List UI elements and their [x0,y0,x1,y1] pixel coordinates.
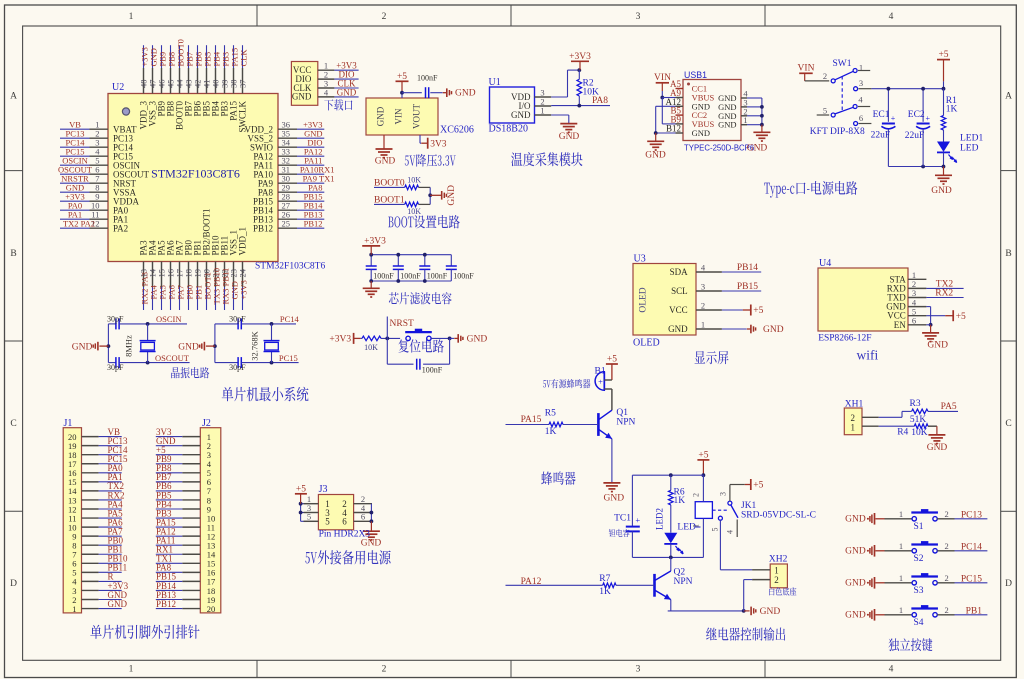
svg-text:STM32F103C8T6: STM32F103C8T6 [255,262,325,272]
svg-text:5: 5 [325,517,330,527]
svg-text:+3V3: +3V3 [569,52,591,62]
svg-text:22uF: 22uF [871,131,891,141]
svg-text:A: A [10,91,17,101]
svg-text:100nF: 100nF [427,272,448,281]
svg-text:LED2: LED2 [654,508,664,530]
svg-text:PA15: PA15 [521,415,542,425]
svg-text:4: 4 [725,530,734,534]
svg-text:GND: GND [604,494,625,504]
svg-text:S4: S4 [914,618,924,628]
svg-text:PC15: PC15 [961,574,982,584]
svg-text:2: 2 [823,71,827,81]
svg-text:GND: GND [931,186,952,196]
svg-text:1: 1 [743,115,747,125]
svg-text:VIN: VIN [393,108,403,124]
svg-text:SDA: SDA [670,267,689,277]
svg-text:2: 2 [701,301,705,311]
svg-text:PC15: PC15 [279,353,298,363]
svg-text:4: 4 [889,12,894,22]
svg-text:NPN: NPN [674,577,693,587]
svg-text:GND: GND [645,151,666,161]
svg-text:30pF: 30pF [229,314,246,323]
svg-text:GND: GND [337,87,357,97]
svg-text:LED1: LED1 [960,134,983,144]
svg-text:1: 1 [129,12,134,22]
svg-text:30pF: 30pF [107,363,124,372]
svg-text:+: + [635,515,640,525]
svg-text:22uF: 22uF [905,131,925,141]
svg-text:1: 1 [899,509,903,519]
svg-text:GND: GND [178,342,199,352]
svg-text:XC6206: XC6206 [440,125,474,136]
svg-text:PC14: PC14 [280,314,300,324]
svg-text:GND: GND [361,538,382,548]
svg-text:100nF: 100nF [400,272,421,281]
svg-text:+5: +5 [607,355,617,365]
svg-text:1: 1 [899,573,903,583]
svg-text:4: 4 [889,665,894,675]
svg-text:3: 3 [859,78,863,88]
svg-text:VCC: VCC [669,305,688,315]
svg-text:10K: 10K [364,343,378,352]
svg-text:GND: GND [108,599,128,609]
svg-text:OSCOUT: OSCOUT [155,353,190,363]
svg-text:D: D [10,579,17,589]
svg-text:CLK: CLK [239,49,249,67]
svg-text:EN: EN [894,320,906,330]
svg-text:10K: 10K [911,428,928,438]
svg-text:10K: 10K [407,175,421,184]
svg-text:1K: 1K [946,104,958,114]
svg-text:GND: GND [511,110,531,120]
svg-text:TC1: TC1 [614,514,631,524]
svg-text:PB14: PB14 [737,263,758,273]
svg-text:PA2: PA2 [113,223,128,233]
svg-text:GND: GND [455,89,476,99]
svg-text:C: C [1005,419,1011,429]
svg-text:30pF: 30pF [229,363,246,372]
svg-text:+: + [891,114,896,123]
svg-text:U3: U3 [634,254,646,265]
svg-text:2: 2 [774,575,779,585]
svg-text:VDD_1: VDD_1 [238,227,248,256]
svg-text:+3V3: +3V3 [364,236,386,246]
svg-text:SRD-05VDC-SL-C: SRD-05VDC-SL-C [741,511,816,521]
svg-text:37: 37 [238,80,248,89]
svg-text:NRST: NRST [390,319,414,329]
svg-text:S3: S3 [914,586,924,596]
svg-text:TYPEC-250D-BCP6: TYPEC-250D-BCP6 [684,143,754,152]
svg-text:+5: +5 [397,72,407,82]
svg-text:LED: LED [960,144,979,154]
svg-text:PB12: PB12 [156,599,176,609]
svg-text:1: 1 [899,605,903,615]
svg-text:GND: GND [747,144,768,154]
svg-text:1: 1 [72,604,76,614]
svg-text:OLED: OLED [639,287,649,312]
svg-text:24: 24 [238,268,248,277]
svg-text:3: 3 [701,282,705,292]
svg-text:6: 6 [912,316,916,326]
svg-text:1: 1 [540,105,544,115]
svg-text:VIN: VIN [798,64,815,74]
svg-text:C: C [10,419,16,429]
svg-text:PB12: PB12 [304,218,323,228]
svg-text:GND: GND [375,106,385,126]
svg-text:RX2: RX2 [935,288,953,298]
svg-text:+5: +5 [698,450,708,460]
svg-text:1: 1 [701,320,705,330]
svg-text:Pin HDR2X3: Pin HDR2X3 [319,530,371,540]
svg-text:PA8: PA8 [592,96,608,106]
svg-text:5: 5 [307,512,311,522]
svg-text:+5: +5 [296,484,306,494]
svg-text:PC13: PC13 [961,510,982,520]
svg-text:OSCIN: OSCIN [156,314,182,324]
svg-text:1K: 1K [599,587,611,597]
svg-text:GND: GND [375,157,396,167]
svg-text:+3V3: +3V3 [239,280,249,299]
svg-text:1: 1 [692,524,701,528]
svg-text:32.768K: 32.768K [250,330,260,360]
svg-text:1: 1 [774,565,779,575]
svg-text:PB12: PB12 [253,223,273,233]
svg-text:100nF: 100nF [453,272,474,281]
svg-text:3: 3 [719,492,728,496]
svg-text:+5: +5 [938,50,948,60]
svg-text:2: 2 [944,573,948,583]
svg-text:GND: GND [845,611,866,621]
svg-text:GND: GND [760,607,781,617]
svg-text:D: D [1005,579,1012,589]
svg-text:A: A [1005,91,1012,101]
svg-text:+5: +5 [956,312,966,322]
svg-text:PB1: PB1 [966,606,983,616]
svg-text:3: 3 [636,665,641,675]
svg-text:wifi: wifi [857,347,879,362]
svg-text:51K: 51K [910,415,927,425]
svg-text:PA5: PA5 [941,402,957,412]
svg-text:GND: GND [845,515,866,525]
svg-text:S1: S1 [914,522,924,532]
svg-text:+5: +5 [753,306,763,316]
svg-text:OLED: OLED [633,338,660,349]
svg-text:100nF: 100nF [422,365,443,374]
svg-text:2: 2 [944,509,948,519]
svg-text:SW1: SW1 [833,59,852,69]
svg-text:25: 25 [282,218,291,228]
svg-text:EC1: EC1 [873,110,890,120]
svg-text:2: 2 [382,665,387,675]
svg-text:EC2: EC2 [908,110,925,120]
svg-text:J3: J3 [319,484,328,495]
svg-text:TX2 PA2: TX2 PA2 [63,218,95,228]
svg-text:GND: GND [292,92,312,102]
svg-text:GND: GND [447,185,457,206]
svg-text:PC14: PC14 [961,542,982,552]
svg-text:2: 2 [851,413,856,423]
svg-text:GND: GND [763,325,784,335]
svg-text:VIN: VIN [654,73,671,83]
svg-text:1: 1 [851,423,856,433]
svg-text:S2: S2 [914,554,924,564]
svg-text:R7: R7 [599,574,610,584]
svg-text:B: B [10,249,16,259]
svg-text:J1: J1 [64,418,73,429]
svg-text:NPN: NPN [616,417,635,427]
svg-text:STM32F103C8T6: STM32F103C8T6 [151,166,240,180]
svg-text:JK1: JK1 [741,501,757,511]
svg-text:6: 6 [342,517,347,527]
svg-text:B: B [1005,249,1011,259]
svg-text:GND: GND [692,128,710,138]
svg-text:SWCLK: SWCLK [238,100,248,132]
svg-text:KFT DIP-8X8: KFT DIP-8X8 [810,127,865,137]
svg-text:3V3: 3V3 [430,139,447,149]
svg-text:GND: GND [927,443,948,453]
svg-text:J2: J2 [202,418,211,429]
svg-text:2: 2 [692,493,701,497]
svg-text:XH2: XH2 [769,555,788,565]
svg-text:20: 20 [207,604,216,614]
svg-text:100nF: 100nF [373,272,394,281]
svg-text:GND: GND [845,579,866,589]
svg-text:SCL: SCL [671,286,688,296]
svg-text:GND: GND [668,324,688,334]
svg-text:ESP8266-12F: ESP8266-12F [818,334,871,344]
svg-text:2: 2 [944,605,948,615]
svg-text:GND: GND [927,341,948,351]
svg-text:1: 1 [899,541,903,551]
svg-text:GND: GND [467,335,488,345]
svg-text:3: 3 [636,12,641,22]
svg-text:5: 5 [823,106,827,116]
svg-text:100nF: 100nF [417,73,438,82]
svg-text:XH1: XH1 [845,400,864,410]
svg-text:+3V3: +3V3 [329,335,351,345]
svg-text:+5: +5 [753,481,763,491]
svg-text:B12: B12 [666,124,681,134]
svg-text:U4: U4 [819,258,831,269]
svg-text:30pF: 30pF [107,314,124,323]
svg-text:GND: GND [559,132,580,142]
svg-text:VOUT: VOUT [411,104,421,129]
svg-text:+: + [598,377,603,387]
svg-text:5: 5 [711,528,720,532]
svg-text:R3: R3 [910,399,921,409]
svg-text:U1: U1 [489,77,501,88]
svg-text:R4: R4 [897,428,908,438]
svg-text:2: 2 [382,12,387,22]
svg-text:U2: U2 [112,82,124,93]
svg-text:PB15: PB15 [737,282,758,292]
svg-text:10K: 10K [407,207,421,216]
svg-text:8MHz: 8MHz [124,335,134,357]
svg-text:GND: GND [72,342,93,352]
svg-text:1K: 1K [674,496,686,506]
svg-text:6: 6 [859,113,863,123]
svg-text:DS18B20: DS18B20 [489,124,528,135]
svg-text:GND: GND [845,547,866,557]
svg-text:6: 6 [361,512,365,522]
svg-text:USB1: USB1 [684,70,707,80]
svg-text:R5: R5 [545,408,556,418]
svg-text:+: + [925,114,930,123]
svg-text:1: 1 [129,665,134,675]
svg-text:1K: 1K [545,427,557,437]
svg-text:2: 2 [944,541,948,551]
svg-text:GND: GND [718,120,736,130]
